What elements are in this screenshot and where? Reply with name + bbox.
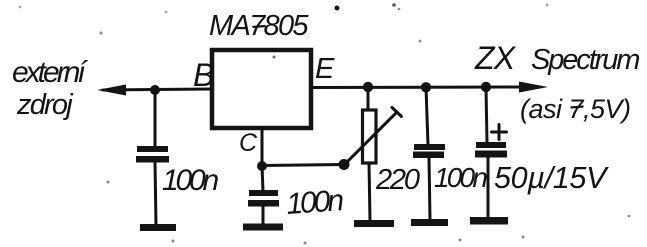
wire C1 top leg [154, 90, 157, 146]
wire R1 bottom leg [369, 163, 370, 221]
node C junction [257, 161, 267, 171]
svg-text:100n: 100n [434, 162, 487, 193]
resistor R1 wiper arrow [344, 112, 397, 165]
capacitor C3 100n [414, 144, 445, 150]
ground G4 [411, 219, 448, 226]
wire C4 bottom leg [487, 157, 490, 218]
svg-text:zdroj: zdroj [16, 89, 74, 121]
wire R1 top leg [367, 87, 370, 111]
wire C2 top leg [262, 166, 263, 191]
svg-text:100n: 100n [162, 164, 218, 197]
node E junction 3 [481, 82, 491, 92]
svg-text:220: 220 [375, 164, 420, 196]
svg-text:B: B [193, 57, 214, 93]
ground G2 [243, 224, 283, 231]
wire C3 top leg [426, 87, 428, 145]
capacitor C2 100n [249, 190, 278, 196]
wire C pin [261, 129, 264, 166]
ground G1 [140, 224, 176, 231]
node wiper dot [339, 159, 350, 170]
svg-text:Spectrum: Spectrum [531, 44, 639, 76]
ground G5 [470, 217, 508, 225]
wire C to wiper [262, 165, 344, 166]
capacitor C4 50u/15V [476, 142, 506, 148]
svg-text:50µ/15V: 50µ/15V [494, 161, 609, 195]
capacitor C1 100n [137, 146, 168, 152]
arrow right [519, 82, 548, 93]
svg-text:externí: externí [12, 56, 88, 89]
svg-text:E: E [315, 53, 335, 85]
polarity plus C4 [492, 131, 507, 134]
wire C1 bottom leg [155, 162, 156, 225]
svg-text:ZX: ZX [474, 40, 517, 76]
wire C3 bottom leg [429, 158, 430, 220]
node E junction 2 [421, 82, 431, 92]
wire C2 bottom leg [262, 206, 265, 225]
arrow left [97, 85, 126, 96]
wire C4 top leg [486, 87, 487, 143]
node E junction 1 [363, 82, 373, 92]
svg-text:C: C [239, 129, 258, 157]
svg-text:(asi 7,5V): (asi 7,5V) [520, 94, 631, 124]
wire output [311, 86, 522, 90]
node input junction [150, 85, 160, 95]
svg-text:100n: 100n [285, 184, 344, 221]
wire input [103, 89, 212, 90]
IC U1 MA7805 box [212, 50, 311, 128]
speck [335, 6, 340, 11]
ground G3 [354, 220, 394, 227]
resistor R1 220 body [363, 110, 377, 163]
